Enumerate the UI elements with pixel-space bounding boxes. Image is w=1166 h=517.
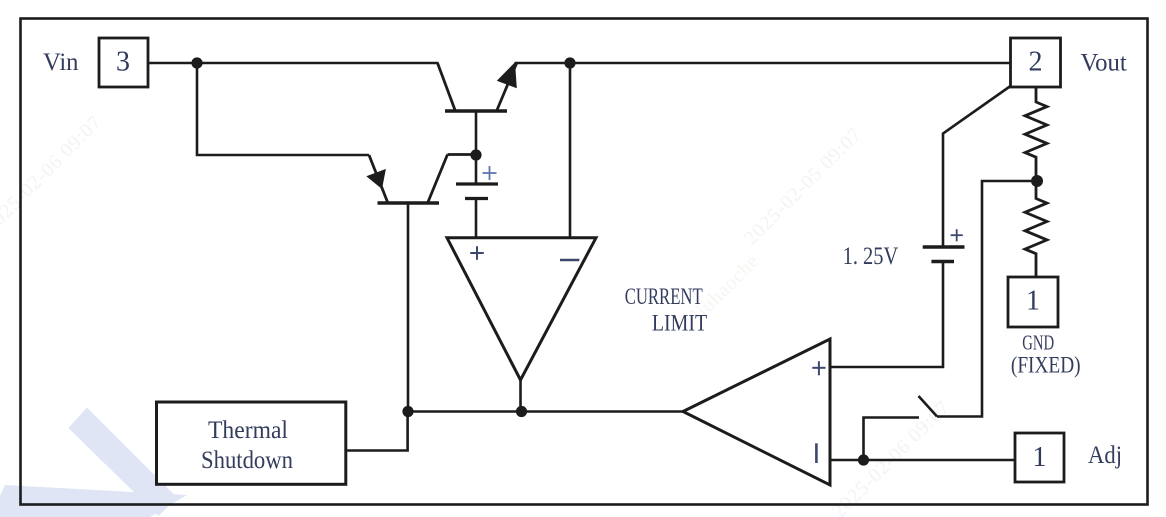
wire top rail node C to U1 minus input (569, 63, 572, 238)
wire U2 minus input to Adj pin (830, 459, 1015, 462)
wire bus (U1 output to U2 apex) (408, 410, 683, 413)
node B junction dot (470, 149, 481, 160)
capacitor C1 plates (456, 184, 498, 199)
wire U2 plus input to battery (830, 262, 943, 367)
transistor Q2 emitter arrow (366, 169, 386, 189)
pin box 2 (Vout) (1011, 38, 1061, 87)
svg-text:1: 1 (1026, 286, 1040, 317)
op-amp U1 (error amp, pointing down) (447, 238, 596, 380)
wire thermal shutdown to node D (346, 412, 408, 451)
wire node E up to switch (864, 418, 920, 461)
wire node A down-right to Q2 emitter (197, 63, 369, 155)
transistor Q1 emitter arrow (497, 62, 517, 88)
node A junction dot (191, 57, 202, 68)
svg-text:Vin: Vin (43, 47, 79, 76)
svg-text:2: 2 (1029, 47, 1043, 78)
node G junction dot (U1 output) (516, 406, 527, 417)
op-amp U2 minus input label (815, 443, 818, 463)
node E junction dot (Adj sense) (858, 454, 869, 465)
pin box 1 (Adj) (1015, 433, 1064, 482)
op-amp U2 plus input label (812, 361, 825, 375)
wire Q2 base down to bus node D (407, 203, 410, 412)
svg-text:Adj: Adj (1088, 440, 1122, 469)
resistor R1 (1025, 87, 1047, 181)
svg-text:Shutdown: Shutdown (201, 445, 293, 474)
node F junction dot (divider tap) (1031, 175, 1043, 187)
op-amp U1 plus input label (470, 246, 484, 260)
svg-text:Thermal: Thermal (208, 415, 288, 444)
node D junction dot (402, 406, 413, 417)
switch S1 blade (919, 396, 938, 417)
capacitor C1 plus label (483, 166, 497, 180)
op-amp U2 (current limit amp, pointing left) (683, 339, 830, 485)
pin box 3 (Vin) (99, 38, 148, 87)
battery B1 1.25V reference plates (923, 247, 965, 262)
svg-text:3: 3 (116, 47, 130, 78)
svg-text:GND: GND (1022, 331, 1054, 355)
wire Vin to Q1 collector (148, 62, 439, 65)
node C junction dot (564, 57, 575, 68)
thermal shutdown block (157, 402, 346, 484)
wire switch to divider node F (937, 181, 1037, 417)
wire capacitor to op-amp U1 plus input (475, 198, 478, 238)
transistor Q1 (NPN pass) (438, 63, 517, 111)
resistor R2 (1025, 181, 1047, 277)
svg-text:Vout: Vout (1081, 48, 1127, 77)
svg-text:(FIXED): (FIXED) (1011, 353, 1081, 378)
op-amp U1 minus input label (560, 259, 579, 261)
transistor Q2 (PNP drive) (369, 155, 476, 204)
wire Q1 emitter to Vout (top rail) (515, 62, 1011, 65)
wire U1 output to bus (519, 380, 522, 412)
svg-text:1: 1 (1033, 442, 1047, 473)
watermark timestamp text (0, 111, 954, 517)
svg-text:LIMIT: LIMIT (652, 311, 707, 336)
svg-text:1. 25V: 1. 25V (843, 241, 899, 270)
wire Q1 base to node B (475, 111, 478, 156)
watermark logo stripe (0, 408, 187, 517)
pin box 1 (GND) (1008, 277, 1058, 327)
wire battery top to Vout box corner (943, 86, 1011, 247)
battery B1 plus label (951, 229, 963, 241)
wire node B to capacitor (475, 155, 478, 183)
svg-text:CURRENT: CURRENT (625, 284, 703, 309)
